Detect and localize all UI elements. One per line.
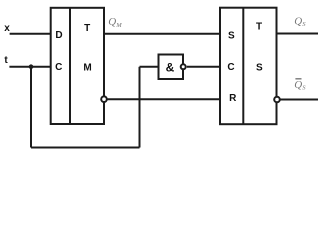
wire t input — [9, 66, 50, 68]
svg-text:x: x — [4, 23, 10, 34]
svg-text:T: T — [256, 22, 262, 33]
wire bottom run — [31, 147, 140, 149]
svg-text:M: M — [83, 62, 91, 73]
svg-text:&: & — [166, 61, 175, 75]
wire QS output — [277, 33, 319, 35]
wire inverted QS output — [280, 99, 318, 101]
svg-text:R: R — [229, 93, 237, 104]
node t junction — [29, 64, 34, 69]
flip-flop U1 divider — [69, 8, 71, 124]
flip-flop U2 divider — [242, 8, 244, 125]
svg-text:D: D — [55, 30, 62, 41]
flip-flop U2 slave latch body — [220, 8, 277, 125]
wire QM to S — [104, 33, 220, 35]
wire t branch vertical — [30, 67, 32, 148]
wire gate G1 input — [140, 66, 159, 68]
svg-text:C: C — [55, 62, 62, 73]
wire gate G1 output to C — [187, 66, 220, 68]
svg-text:T: T — [84, 23, 90, 34]
overline of inverted QS — [295, 78, 301, 80]
wire riser to gate input — [139, 67, 141, 148]
wire inverted QM to R — [107, 98, 220, 100]
flip-flop U1 master latch body — [51, 8, 104, 124]
svg-text:S: S — [228, 30, 235, 41]
svg-text:S: S — [256, 62, 263, 73]
wire x input — [10, 33, 51, 35]
NAND gate G1 body — [159, 55, 184, 80]
svg-text:C: C — [227, 62, 234, 73]
G1 output bubble — [181, 64, 186, 69]
U1 inverted output bubble — [101, 96, 107, 102]
U2 inverted output bubble — [274, 97, 280, 103]
